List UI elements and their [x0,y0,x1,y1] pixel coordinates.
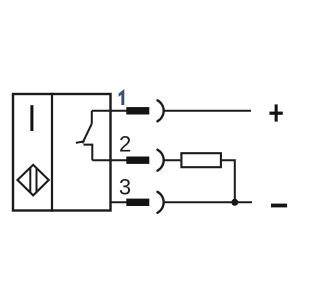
resistor R [181,153,221,167]
proximity switch symbol (diamond) [18,165,49,196]
pin label 1 [119,89,125,105]
plug arc wire 3 [157,192,163,213]
wire 1 line to + [164,110,251,112]
svg-text:2: 2 [119,131,131,156]
switch lever [82,124,91,144]
junction dot [231,199,238,206]
switch top vertical lead [91,111,93,124]
wire 3 line to - [164,201,252,203]
diamond inner line right [36,168,38,193]
wire 2 from resistor to corner [221,160,235,202]
connector pin 3 (black block) [126,199,149,206]
plus terminal [269,104,282,121]
svg-text:3: 3 [119,174,131,199]
wire 3 stub [110,201,127,203]
diamond inner line left [29,167,31,192]
plug arc wire 2 [157,150,163,171]
switch lower contact L [84,145,93,161]
wire 1 (inside box to stub) [92,110,127,112]
connector pin 1 (black block) [126,107,149,114]
minus terminal [271,204,287,208]
sensor body outline [13,94,111,211]
plug arc wire 1 [157,100,163,121]
wire 2 (inside box to stub) [92,159,127,161]
connector pin 2 (black block) [126,157,149,164]
wire 2 line to resistor [164,159,180,161]
symbol I (inductive element) [30,105,33,131]
sensor body divider [51,93,53,212]
switch lever tick [76,141,85,142]
